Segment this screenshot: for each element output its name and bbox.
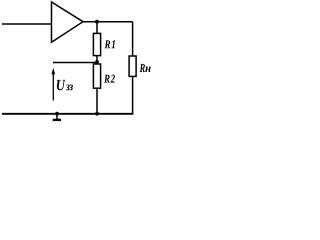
- resistor Rn: [129, 56, 136, 76]
- wire right branch down: [132, 22, 134, 56]
- resistor R1: [93, 33, 100, 55]
- node B junction dot: [95, 60, 99, 64]
- label R2: [104, 75, 115, 83]
- wire output top: [83, 21, 133, 23]
- label Uзз: [57, 80, 73, 90]
- node C junction dot: [95, 112, 99, 116]
- ground: [56, 114, 58, 120]
- wire R1 to node B: [96, 56, 98, 64]
- label Rн: [140, 64, 151, 72]
- wire input: [2, 23, 52, 25]
- node A junction dot: [95, 20, 99, 24]
- ground junction dot: [55, 112, 59, 116]
- arrow Uzz line: [52, 74, 54, 101]
- arrow Uzz head: [52, 68, 56, 75]
- resistor R2: [93, 64, 100, 88]
- wire node B stub left: [53, 62, 97, 64]
- wire Rn to rail: [132, 76, 134, 113]
- label R1: [105, 40, 115, 48]
- wire R2 to rail: [96, 88, 98, 114]
- wire node A to R1: [96, 22, 98, 34]
- wire bottom rail: [2, 113, 133, 115]
- op-amp U1: [52, 2, 84, 42]
